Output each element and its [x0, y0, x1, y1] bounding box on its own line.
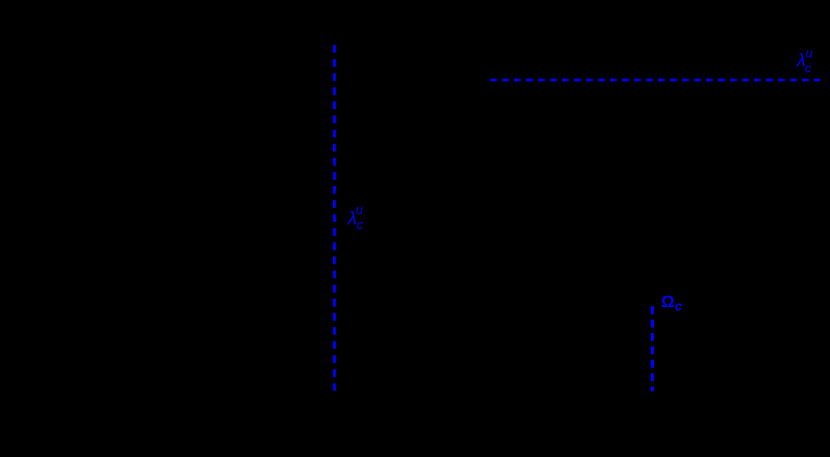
wire: horizontal dashed threshold line lambda_c^u	[490, 79, 820, 82]
svg-text:c: c	[805, 61, 812, 76]
svg-text:c: c	[675, 299, 683, 314]
wire: vertical dashed threshold line lambda_c^u	[333, 45, 336, 391]
svg-text:u: u	[356, 202, 363, 217]
node label lambda_c^u (center)	[347, 202, 364, 232]
svg-text:u: u	[806, 45, 813, 60]
node label Omega_c	[661, 293, 682, 314]
node label lambda_c^u (top right)	[796, 45, 813, 75]
wire: short vertical dashed line Omega_c	[651, 306, 654, 391]
svg-text:c: c	[357, 217, 364, 232]
svg-text:Ω: Ω	[661, 293, 674, 311]
